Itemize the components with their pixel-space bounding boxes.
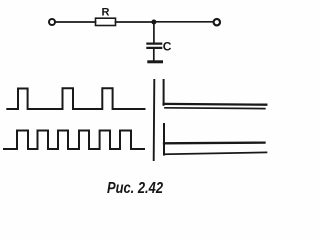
output waveform u2out axis [163,124,165,155]
capacitor C top plate [147,42,161,44]
node A (junction dot) [151,20,156,25]
separator bar [153,80,156,160]
svg-text:C: C [163,39,172,53]
wire input terminal to resistor R [55,21,95,23]
output waveform u1out baseline [165,107,265,110]
output waveform u2out baseline [164,152,267,154]
svg-text:R: R [102,7,110,19]
resistor R [96,18,116,25]
output waveform u1out level line [164,103,267,106]
wire node A to output terminal [153,21,213,23]
capacitor C bottom plate [147,47,161,49]
terminal input (left open circle) [49,19,55,25]
output waveform u2out level line [164,141,265,144]
wire capacitor C to ground bar [153,49,155,60]
ground bar [149,60,162,63]
terminal output (right open circle) [214,19,220,25]
svg-text:Рис. 2.42: Рис. 2.42 [107,180,163,197]
wire resistor R to node A [116,21,154,23]
input waveform u1 (low frequency pulse train) [7,88,144,109]
input waveform u2 (high frequency pulse train) [4,131,144,150]
wire node A down to capacitor C [153,22,155,43]
output waveform u1out axis [163,80,165,105]
